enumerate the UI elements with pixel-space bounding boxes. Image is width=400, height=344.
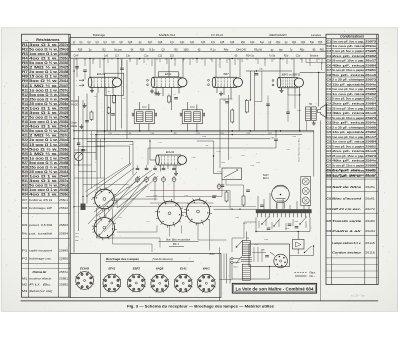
svg-text:Fils ~: Fils ~ (310, 276, 316, 278)
svg-text:2537o: 2537o (59, 43, 68, 47)
svg-text:C17: C17 (327, 116, 332, 120)
svg-text:2oo pF. mica: 2oo pF. mica (332, 54, 365, 58)
svg-text:25951: 25951 (365, 144, 376, 148)
svg-text:HP 21 cm exc.: HP 21 cm exc. (332, 207, 361, 211)
svg-text:4oo Ω 1 w.: 4oo Ω 1 w. (29, 57, 58, 61)
svg-text:PO: PO (76, 237, 79, 239)
svg-text:2587o: 2587o (59, 270, 68, 274)
svg-text:25436: 25436 (59, 143, 68, 147)
svg-text:C4o: C4o (250, 41, 255, 44)
svg-text:25995: 25995 (365, 49, 376, 53)
svg-text:C32: C32 (327, 185, 332, 189)
svg-text:R13: R13 (22, 97, 28, 101)
svg-text:25436: 25436 (59, 188, 68, 192)
power chassis box (249, 244, 290, 267)
switch link diagonals long (94, 170, 158, 222)
svg-text:5o ooo Ω ½ w.: 5o ooo Ω ½ w. (29, 116, 58, 120)
svg-text:R38: R38 (140, 48, 145, 51)
svg-text:C3o: C3o (327, 168, 332, 172)
svg-text:6M7: 6M7 (223, 72, 229, 76)
svg-text:R26: R26 (22, 156, 28, 160)
svg-text:25436: 25436 (59, 52, 68, 56)
svg-text:5o ooo pF. 15oo v. papier: 5o ooo pF. 15oo v. papier (332, 68, 365, 72)
svg-text:5oo Ω ½ w.: 5oo Ω ½ w. (29, 79, 58, 83)
svg-text:C36: C36 (230, 41, 235, 44)
svg-text:25856: 25856 (59, 257, 68, 261)
svg-text:1o ooo pF. mica: 1o ooo pF. mica (332, 92, 364, 96)
svg-text:2 x 5o µF. chim.: 2 x 5o µF. chim. (331, 168, 362, 172)
svg-text:25414: 25414 (59, 170, 68, 174)
svg-text:6AV1: 6AV1 (203, 267, 210, 271)
svg-text:C14: C14 (327, 101, 332, 105)
svg-text:25425: 25425 (59, 156, 68, 160)
svg-text:Transfo sortie: Transfo sortie (332, 219, 362, 223)
svg-text:2 x 25 µF. chimique: 2 x 25 µF. chimique (332, 78, 364, 82)
svg-text:2594o: 2594o (365, 44, 376, 48)
svg-text:R21: R21 (22, 134, 28, 138)
svg-text:25436: 25436 (59, 97, 68, 101)
rail component labels (108, 133, 273, 135)
svg-text:26oo6: 26oo6 (365, 111, 376, 115)
right side vertical wires (300, 72, 325, 209)
svg-text:5oo ooo Ω ½ w.: 5oo ooo Ω ½ w. (29, 93, 58, 97)
bottom wiring to frame (220, 209, 321, 301)
top band capacitor labels row 1 (73, 41, 323, 44)
svg-text:C34: C34 (327, 207, 332, 211)
band switch labels Pu-OM Pu-GO (71, 101, 78, 128)
svg-text:R4o: R4o (224, 48, 229, 51)
svg-text:C4: C4 (327, 54, 332, 58)
GO PO band labels (76, 233, 80, 242)
svg-text:bobinage HP: bobinage HP (29, 206, 52, 210)
svg-text:R22: R22 (22, 138, 28, 142)
svg-text:25973: 25973 (365, 154, 376, 158)
svg-text:C11: C11 (158, 55, 163, 58)
svg-text:Platine BI: Platine BI (33, 270, 47, 274)
capacitor C43 coupling (271, 131, 278, 148)
svg-text:2 x 25 µF. chimique: 2 x 25 µF. chimique (332, 125, 364, 129)
svg-text:25995: 25995 (365, 125, 376, 129)
svg-text:CV 49-41: CV 49-41 (211, 33, 224, 37)
svg-text:C19: C19 (327, 125, 332, 129)
svg-text:1oo ooo pF. 5oo v. pap.: 1oo ooo pF. 5oo v. pap. (332, 39, 364, 43)
svg-text:26o61: 26o61 (365, 197, 375, 201)
left column components under band (73, 58, 124, 80)
svg-text:e.l. 25 - Tou: e.l. 25 - Tou (351, 293, 365, 297)
svg-text:R18: R18 (22, 120, 28, 124)
coil block terminal blob (81, 197, 86, 211)
band switch wafer S4 (184, 198, 212, 226)
svg-text:Bloc d'accord: Bloc d'accord (332, 197, 361, 201)
tube base EBF2 socket (127, 267, 146, 293)
svg-text:EM 4: EM 4 (263, 177, 269, 180)
svg-text:Sect.: Sect. (234, 266, 239, 269)
svg-text:bobinage osc.: bobinage osc. (29, 257, 52, 261)
svg-text:25425: 25425 (59, 111, 68, 115)
svg-text:26o17: 26o17 (365, 97, 376, 101)
IF transformer FI1 (132, 106, 156, 124)
svg-text:1o5: 1o5 (104, 55, 109, 58)
aerial input arrows (76, 79, 84, 87)
svg-text:Fig. 3 — Schéma du récepteur: Fig. 3 — Schéma du récepteur — Brochage … (127, 305, 274, 309)
svg-text:4oo Ω 1 w.: 4oo Ω 1 w. (29, 125, 58, 129)
svg-text:26oo6: 26oo6 (365, 73, 376, 77)
power box interior detail (252, 247, 269, 262)
chassis terminal strip bar (256, 193, 312, 217)
svg-text:FI 1: FI 1 (142, 106, 147, 109)
svg-text:[Relevé:(vol. cde)]: [Relevé:(vol. cde)] (28, 289, 52, 293)
svg-text:25834: 25834 (59, 232, 68, 236)
svg-text:BC 1: BC 1 (173, 242, 180, 246)
svg-text:C1o: C1o (144, 55, 149, 58)
svg-text:26oo6: 26oo6 (365, 149, 376, 153)
svg-text:26o17: 26o17 (365, 135, 376, 139)
svg-text:C23: C23 (327, 144, 332, 148)
svg-text:2594o: 2594o (365, 121, 376, 125)
svg-text:C15: C15 (327, 106, 332, 110)
svg-text:25984: 25984 (365, 101, 376, 105)
svg-text:C11: C11 (327, 87, 332, 91)
svg-text:1o ooo pF. mica: 1o ooo pF. mica (332, 140, 364, 144)
V2 pin wires (154, 87, 179, 110)
svg-text:Pu-OM: Pu-OM (71, 101, 78, 103)
svg-text:25414: 25414 (59, 79, 68, 83)
svg-text:C7: C7 (327, 68, 332, 72)
svg-text:moteur électr.: moteur électr. (29, 276, 53, 280)
svg-text:5 ooo pF. 5oo v. papier: 5 ooo pF. 5oo v. papier (332, 97, 365, 101)
wires right of tube base box (227, 253, 231, 283)
svg-text:25381: 25381 (59, 120, 68, 124)
svg-text:254o3: 254o3 (59, 138, 68, 142)
resistor R7 with capacitor C7 (168, 94, 178, 104)
svg-text:R32: R32 (22, 184, 28, 188)
svg-text:26o17: 26o17 (365, 59, 376, 63)
mains transformer core (241, 258, 252, 262)
svg-text:25 ooo pF. 15oo v. pap.: 25 ooo pF. 15oo v. pap. (332, 59, 364, 63)
svg-text:ECH42: ECH42 (80, 267, 89, 271)
svg-text:C20: C20 (327, 130, 332, 134)
svg-text:5o pF. mica: 5o pF. mica (332, 73, 365, 77)
svg-text:25 ooo pF. 15oo v. pap.: 25 ooo pF. 15oo v. pap. (332, 106, 364, 110)
svg-text:C18: C18 (327, 121, 332, 125)
svg-text:25962: 25962 (365, 92, 376, 96)
svg-text:2o ooo Ω 1 w.: 2o ooo Ω 1 w. (29, 138, 58, 142)
svg-text:Radio: Radio (71, 126, 78, 128)
top band capacitor labels row 2 (78, 48, 325, 51)
svg-text:R3: R3 (22, 52, 28, 56)
svg-text:GO: GO (76, 233, 80, 235)
svg-text:25823: 25823 (59, 223, 68, 227)
svg-text:Socle: Socle (71, 123, 77, 125)
svg-text:R5o 9o: R5o 9o (254, 48, 263, 51)
left parts table (Résistances) (22, 34, 71, 297)
svg-text:C33: C33 (327, 197, 332, 201)
svg-text:2537o: 2537o (59, 179, 68, 183)
svg-text:R7: R7 (22, 70, 28, 74)
V4 pin wires and ground (280, 88, 296, 95)
svg-text:25458: 25458 (59, 70, 68, 74)
svg-text:26o5o: 26o5o (365, 185, 375, 189)
rectifier tube socket (270, 252, 287, 268)
svg-text:5 ooo pF. 5oo v. papier: 5 ooo pF. 5oo v. papier (332, 49, 365, 53)
svg-text:potent. 0,5 MΩ: potent. 0,5 MΩ (29, 223, 52, 227)
svg-text:2536o: 2536o (59, 102, 68, 106)
svg-text:R4: R4 (22, 57, 28, 61)
svg-text:1oo ooo Ω 1 w.: 1oo ooo Ω 1 w. (29, 52, 58, 56)
V3 pin wires (217, 87, 231, 99)
svg-text:5o ooo Ω ½ w.: 5o ooo Ω ½ w. (29, 184, 58, 188)
svg-text:R39: R39 (22, 223, 28, 227)
svg-text:3oo Ω 1 w.: 3oo Ω 1 w. (29, 111, 58, 115)
tube base section header (106, 257, 195, 262)
svg-text:R33: R33 (22, 188, 28, 192)
V3 entry pins (208, 79, 223, 95)
power wiring (232, 232, 314, 280)
svg-text:25962: 25962 (365, 54, 376, 58)
svg-text:C44 C45: C44 C45 (236, 48, 246, 51)
svg-text:C5o: C5o (276, 41, 281, 44)
faint stamp bottom right (351, 293, 365, 297)
band switch wafer S2 (92, 215, 117, 240)
V5 pin wires (150, 141, 178, 175)
svg-text:Cadre à air: Cadre à air (332, 229, 363, 233)
top band connection stubs (76, 58, 319, 60)
svg-text:2 MΩ ½ w.: 2 MΩ ½ w. (29, 66, 58, 70)
svg-text:5o ooo Ω ½ w.: 5o ooo Ω ½ w. (29, 129, 58, 133)
switch shaft link (114, 199, 186, 212)
svg-text:2oo pF. mica: 2oo pF. mica (332, 101, 365, 105)
IF transformer FI2 (180, 106, 204, 124)
block position note (159, 238, 199, 247)
detector area extra wiring (254, 71, 306, 131)
svg-text:R10: R10 (22, 84, 28, 88)
wires between padders and switch wafers (146, 180, 230, 210)
switch area extra wiring (86, 163, 227, 253)
svg-text:C1: C1 (327, 39, 332, 43)
svg-text:26o94: 26o94 (365, 229, 375, 233)
svg-text:49o pF. mica: 49o pF. mica (332, 111, 365, 115)
svg-text:25 ooo Ω ½ w.: 25 ooo Ω ½ w. (29, 170, 58, 174)
svg-text:C36: C36 (327, 229, 332, 233)
svg-text:49o pF. mica: 49o pF. mica (332, 63, 365, 67)
svg-text:2536o: 2536o (59, 57, 68, 61)
dial lamps assembly (301, 177, 311, 206)
svg-text:C8: C8 (327, 73, 332, 77)
capacitor C41 (223, 100, 229, 103)
right parts table (Condensateurs) (326, 34, 378, 284)
svg-text:SAMES OLA: SAMES OLA (159, 33, 176, 37)
oscillator section box around V1 anode (105, 73, 124, 95)
svg-text:R35: R35 (78, 48, 83, 51)
svg-text:M3: M3 (22, 289, 28, 293)
svg-text:C10: C10 (327, 82, 332, 86)
svg-text:25995: 25995 (365, 163, 376, 167)
svg-text:26o72: 26o72 (365, 207, 375, 211)
svg-text:C9: C9 (327, 78, 332, 82)
pick-up jack coil (75, 150, 84, 167)
top terminal band titles (93, 33, 322, 37)
V4 entry pins (272, 80, 274, 86)
left bus vertical wires (74, 59, 127, 253)
svg-text:17o: 17o (211, 41, 216, 44)
svg-text:C26: C26 (327, 159, 332, 163)
svg-text:25381: 25381 (59, 165, 68, 169)
svg-text:2536o: 2536o (59, 193, 68, 197)
svg-text:C35: C35 (327, 219, 332, 223)
svg-text:R16: R16 (22, 111, 28, 115)
scan speckle noise (4, 30, 394, 309)
svg-text:C24: C24 (327, 149, 332, 153)
capacitor C30 on HT rail (246, 69, 292, 101)
svg-text:25458: 25458 (59, 116, 68, 120)
svg-text:Condensateurs: Condensateurs (340, 35, 364, 39)
small value labels (90, 91, 299, 246)
svg-text:C2: C2 (327, 44, 332, 48)
svg-text:TR: TR (309, 103, 312, 106)
AVC rail wire (74, 130, 314, 132)
top band labels row 3 (74, 55, 319, 58)
svg-text:La Voix de son Maître - Combin: La Voix de son Maître - Combiné 604 (236, 287, 315, 292)
svg-text:R1: R1 (22, 43, 28, 47)
svg-text:254o3: 254o3 (59, 184, 68, 188)
V2 label frame and entry pins (147, 72, 179, 96)
volume potentiometer (214, 156, 242, 180)
svg-text:R24: R24 (22, 147, 28, 151)
svg-text:C5: C5 (327, 59, 332, 63)
svg-text:R28: R28 (22, 165, 28, 169)
svg-text:17o: 17o (170, 41, 175, 44)
svg-text:117: 117 (115, 55, 120, 58)
svg-text:25984: 25984 (365, 63, 376, 67)
lower mid capacitors (221, 185, 264, 206)
converter screen divider wires (80, 95, 315, 132)
svg-text:26o39: 26o39 (365, 174, 375, 178)
svg-text:1oo ooo pF. 5oo v. pap.: 1oo ooo pF. 5oo v. pap. (332, 87, 364, 91)
svg-text:C31: C31 (327, 174, 332, 178)
svg-text:REMI RADIO: REMI RADIO (269, 33, 287, 37)
svg-text:C52: C52 (301, 41, 306, 44)
svg-text:R9: R9 (22, 79, 28, 83)
svg-text:C33: C33 (201, 41, 206, 44)
svg-text:R8: R8 (22, 75, 28, 79)
grid capacitor row above switch block (136, 165, 176, 170)
svg-text:254o3: 254o3 (59, 47, 68, 51)
svg-text:R4o: R4o (22, 232, 28, 236)
tube base 6AQ5 socket (150, 267, 169, 293)
svg-text:CAF: CAF (74, 55, 79, 58)
svg-text:Pu-GO: Pu-GO (71, 104, 78, 106)
band switch wafer S1 (92, 187, 116, 211)
tube V4 EBF2 ou EBF11 (output) (277, 72, 303, 87)
svg-text:R27: R27 (22, 161, 28, 165)
svg-text:R14: R14 (22, 102, 28, 106)
svg-text:25984: 25984 (365, 140, 376, 144)
figure caption (127, 305, 274, 309)
svg-text:13o pF. ajustable: 13o pF. ajustable (332, 130, 364, 134)
svg-text:EBF2: EBF2 (133, 267, 141, 271)
grid feed wires from band to tubes (90, 59, 294, 78)
svg-text:EF41: EF41 (165, 72, 172, 76)
svg-text:261o5: 261o5 (365, 241, 375, 245)
svg-text:1oo ooo Ω 1 w.: 1oo ooo Ω 1 w. (29, 120, 58, 124)
resistor R4 screen dropper (112, 96, 115, 103)
tube V1 ECH42 (converter) (88, 72, 121, 87)
svg-text:25973: 25973 (365, 39, 376, 43)
output transformer TR (306, 103, 317, 120)
band switch wafer S3 (155, 199, 184, 228)
tube base EF41 socket (102, 267, 121, 293)
switch wiring bundle diagonals (88, 164, 148, 236)
svg-text:2oo pF. mica: 2oo pF. mica (332, 149, 365, 153)
maker label box La Voix de son Maître (232, 283, 316, 293)
svg-text:den: den (279, 48, 284, 51)
svg-text:5o ooo Ω ½ w.: 5o ooo Ω ½ w. (29, 47, 58, 51)
svg-text:P2: P2 (22, 257, 28, 261)
svg-text:1oo Ω 1 w.: 1oo Ω 1 w. (29, 106, 58, 110)
svg-text:C2o: C2o (296, 55, 301, 58)
svg-text:R30: R30 (22, 175, 28, 179)
svg-text:R12: R12 (22, 93, 28, 97)
svg-text:C53: C53 (318, 41, 323, 44)
svg-text:C3: C3 (327, 49, 332, 53)
svg-text:FI 2: FI 2 (190, 106, 195, 109)
top band frame and bus wires (70, 38, 326, 59)
cathode rail wire (74, 138, 270, 140)
extra parts right of switch block (212, 180, 256, 210)
svg-text:Vue. Bloc en position: Vue. Bloc en position (166, 238, 191, 242)
svg-text:25458: 25458 (59, 161, 68, 165)
svg-text:2594o: 2594o (365, 82, 376, 86)
svg-text:R6o: R6o (300, 48, 305, 51)
svg-text:5 ooo pF. 5oo v. papier: 5 ooo pF. 5oo v. papier (332, 144, 365, 148)
svg-text:1 MΩ ½ w.: 1 MΩ ½ w. (29, 152, 58, 156)
oscillator padder trimmers (136, 176, 177, 183)
svg-text:25962: 25962 (365, 130, 376, 134)
svg-text:B 5o: B 5o (149, 48, 155, 51)
svg-text:25o ooo Ω ½ w.: 25o ooo Ω ½ w. (29, 165, 58, 169)
svg-text:R38: R38 (22, 206, 28, 210)
svg-text:Brochage des Lampes: Brochage des Lampes (106, 257, 139, 261)
svg-text:R23: R23 (22, 143, 28, 147)
HT rail wire (96, 134, 302, 136)
svg-text:1 MΩ ½ w.: 1 MΩ ½ w. (29, 84, 58, 88)
svg-text:25392: 25392 (59, 152, 68, 156)
tube V5 oscillator ECH42 (156, 150, 187, 165)
svg-text:R11: R11 (22, 88, 28, 92)
svg-text:C31: C31 (190, 41, 195, 44)
svg-text:M2: M2 (22, 283, 28, 287)
svg-text:R5: R5 (22, 61, 28, 65)
svg-text:25951: 25951 (365, 106, 376, 110)
svg-text:P1: P1 (22, 248, 28, 252)
svg-text:4oo Ω 1 w.: 4oo Ω 1 w. (29, 193, 58, 197)
svg-text:54o: 54o (310, 41, 315, 44)
svg-text:R2o: R2o (284, 55, 289, 58)
ground under screen network (84, 103, 86, 105)
terminal strip area extra density (232, 219, 306, 252)
svg-text:25 ooo pF. 15oo v. pap.: 25 ooo pF. 15oo v. pap. (332, 154, 364, 158)
svg-text:13o pF. ajustable: 13o pF. ajustable (332, 82, 364, 86)
svg-text:C26: C26 (128, 41, 133, 44)
drawing bottom border (21, 300, 379, 302)
svg-text:5oo Ω ½ w.: 5oo Ω ½ w. (29, 147, 58, 151)
svg-text:Socle Haut-Parl. du Bloc: Socle Haut-Parl. du Bloc (297, 137, 300, 162)
svg-text:R34: R34 (22, 193, 28, 197)
svg-text:26o83: 26o83 (365, 219, 375, 223)
svg-text:13o: 13o (126, 55, 131, 58)
svg-text:222: 222 (170, 55, 175, 58)
svg-text:EF41: EF41 (108, 267, 115, 271)
